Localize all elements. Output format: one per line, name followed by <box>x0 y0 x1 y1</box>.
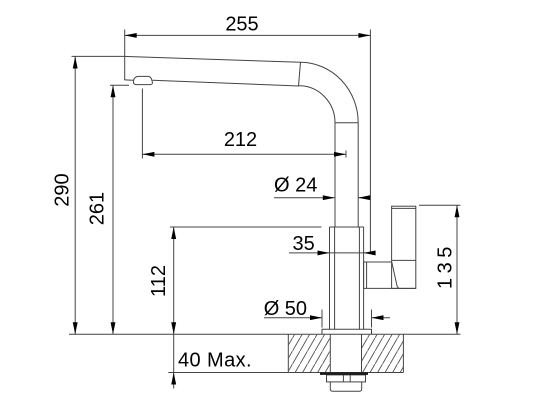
handle top cap line <box>392 207 416 209</box>
handle divider line <box>392 259 416 261</box>
spout top edge <box>125 56 301 62</box>
arrow 255 left <box>125 33 137 38</box>
arrow D24 left <box>323 195 335 200</box>
bend/tube joint line <box>335 122 358 124</box>
arrow 112 bottom / 40max top <box>171 322 176 334</box>
handle / connector bottom edge <box>364 287 416 289</box>
base flange (D50 plate) <box>322 329 372 334</box>
arrow 212 left <box>142 152 154 157</box>
dim 212 left extension line <box>141 89 143 159</box>
bend inner arc <box>299 86 335 123</box>
dim 290 top extension line <box>72 55 125 57</box>
dim 112 top extension line <box>170 226 321 228</box>
svg-text:40 Max.: 40 Max. <box>178 350 252 372</box>
threaded shank end below nut <box>330 382 361 391</box>
mounting nut <box>327 375 366 382</box>
arrow 290 top <box>73 57 78 69</box>
worktop top surface line <box>69 333 460 335</box>
body left outer edge <box>329 227 331 329</box>
worktop hatching right of shank <box>362 335 403 372</box>
dim 212 right end tick <box>345 151 347 158</box>
arrow 135 top <box>455 205 460 217</box>
svg-text:35: 35 <box>292 233 314 255</box>
handle connector block <box>364 262 392 288</box>
dim D24 line right part <box>358 197 370 199</box>
svg-text:112: 112 <box>148 265 170 297</box>
arrow 290 bottom <box>73 322 78 334</box>
shank right edge through worktop <box>361 334 363 372</box>
arrow D24 right <box>358 195 370 200</box>
dim D50 line right part <box>372 317 391 319</box>
dim 112 / 40max line <box>173 227 175 389</box>
arrow 135 bottom <box>455 322 460 334</box>
arrow 212 right <box>334 152 346 157</box>
svg-text:Ø 24: Ø 24 <box>274 174 317 196</box>
svg-text:290: 290 <box>52 173 74 206</box>
spout/bend joint tick <box>299 62 301 86</box>
arrow 35 right <box>364 250 376 255</box>
handle lever diagonal <box>392 262 399 288</box>
washer plate under worktop <box>320 372 368 375</box>
arrow D50 right <box>372 315 384 320</box>
dim 212 line <box>142 153 346 155</box>
spout bottom edge <box>153 80 300 86</box>
nut facet line right <box>349 375 351 382</box>
worktop hatching left of shank <box>289 335 330 372</box>
svg-text:255: 255 <box>225 14 258 36</box>
arrow 261 top <box>111 85 116 97</box>
arrow 112 top <box>171 227 176 239</box>
dim 261 line <box>112 85 114 334</box>
dim 35 line <box>289 252 376 254</box>
svg-text:212: 212 <box>224 129 257 151</box>
handle bar <box>392 206 416 288</box>
worktop left edge <box>287 334 289 372</box>
body right inner line <box>358 227 360 329</box>
dim D50 line left part <box>264 317 322 319</box>
spout left end cap + 255 left extension line <box>124 30 126 81</box>
worktop right edge <box>402 334 404 372</box>
dim 135 top extension line <box>419 204 460 206</box>
dim 290 line <box>74 57 76 335</box>
arrow D50 left <box>310 315 322 320</box>
svg-text:Ø 50: Ø 50 <box>264 298 307 320</box>
arrow 40max bottom <box>171 373 176 385</box>
body left inner line <box>334 227 336 329</box>
tube right edge <box>357 123 359 227</box>
dim D50 left extension line <box>321 310 323 328</box>
shank left edge through worktop <box>329 334 331 372</box>
body top edge <box>330 226 364 228</box>
dim 135 line <box>456 205 458 334</box>
arrow 255 right <box>358 33 370 38</box>
body right outer edge <box>363 227 365 329</box>
nut facet line left <box>342 375 344 382</box>
dim 261 top extension line <box>110 84 129 86</box>
aerator outlet bump <box>133 76 152 84</box>
worktop bottom surface line <box>168 372 403 374</box>
dim D24 line left part <box>274 197 335 199</box>
dim 255 line <box>125 34 371 36</box>
dim D50 right extension line <box>371 310 373 328</box>
spout bottom edge left stub <box>125 79 134 81</box>
arrow 35 left <box>318 250 330 255</box>
svg-text:261: 261 <box>87 192 109 225</box>
tube left edge <box>334 123 336 227</box>
bend outer arc <box>301 62 359 123</box>
dim 255 right extension line <box>369 30 371 254</box>
arrow 261 bottom <box>111 322 116 334</box>
svg-text:135: 135 <box>435 242 457 289</box>
